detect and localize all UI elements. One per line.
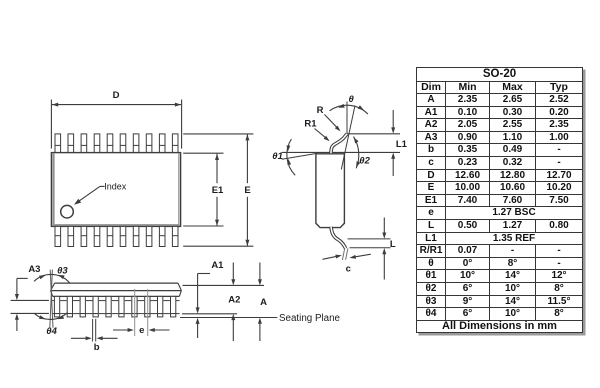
side view: body end chamfers (51, 283, 182, 296)
dimension c witness lines (342, 248, 348, 260)
label θ3 (57, 266, 68, 277)
dimension D extension lines (51, 100, 181, 149)
dimension b (71, 336, 118, 353)
label R and leader (317, 105, 341, 132)
lead detail: lead-tip plane line (346, 133, 400, 135)
dimension table SO-20 (416, 67, 583, 333)
svg-text:L1: L1 (396, 139, 408, 150)
svg-text:E: E (244, 185, 250, 196)
side view: body bottom edge (53, 295, 180, 297)
label θ4 (46, 326, 57, 337)
top view: top pin row (pins 20-11) (55, 134, 178, 153)
lead detail: lower lead (gull-wing) (331, 227, 346, 249)
dimension E extension lines (183, 134, 253, 246)
angle θ4 arc (34, 313, 68, 320)
dimension A2 (228, 263, 240, 342)
lead detail: reference plane line (282, 151, 400, 153)
svg-text:Index: Index (104, 182, 127, 192)
angle θ1 slant line (282, 153, 317, 159)
lead detail: package body (316, 154, 345, 228)
label θ (349, 94, 355, 105)
dimension E1 extension lines (183, 153, 223, 226)
svg-text:A2: A2 (228, 295, 240, 306)
angle θ1 arc (287, 139, 296, 175)
angle θ arc (330, 104, 368, 114)
svg-text:θ1: θ1 (272, 151, 283, 162)
lead detail: upper lead (gull-wing) (331, 134, 347, 153)
index label and leader (74, 182, 127, 205)
dimension E (244, 134, 250, 246)
svg-text:R: R (317, 105, 324, 116)
dimension c arrows (323, 254, 371, 259)
svg-text:E1: E1 (212, 185, 224, 196)
dimension L lines (348, 239, 391, 248)
top view: package body (51, 153, 180, 227)
svg-text:θ3: θ3 (57, 266, 68, 277)
dimension b witness lines (93, 319, 96, 342)
svg-text:θ4: θ4 (46, 326, 57, 337)
angle θ3 arc (34, 274, 70, 282)
svg-text:L: L (390, 239, 396, 250)
dimension A (258, 263, 267, 342)
svg-text:A3: A3 (28, 264, 40, 275)
dimension e center lines (135, 289, 148, 336)
dimension E1 (212, 154, 224, 226)
svg-text:A1: A1 (211, 260, 224, 271)
svg-text:R1: R1 (304, 119, 317, 130)
side view: body top face (55, 282, 178, 284)
side view: end-face draft lines (50, 270, 53, 328)
index mark (pin 1 indicator) (61, 205, 74, 218)
dimension L1 (391, 110, 407, 176)
svg-text:A: A (260, 297, 267, 308)
angle θ vertical reference line (346, 102, 348, 134)
label Seating Plane (279, 313, 341, 324)
svg-text:e: e (139, 325, 144, 336)
svg-text:D: D (113, 90, 120, 101)
angle θ slant line (341, 106, 355, 170)
label θ2 (359, 155, 370, 166)
seating plane line (180, 317, 277, 319)
side view: far-row lead lines in gaps (52, 301, 180, 314)
angle θ2 arc (354, 137, 361, 169)
svg-text:c: c (346, 263, 351, 274)
standoff (body bottom) line (182, 313, 237, 315)
body-top extension line (183, 284, 265, 286)
label θ1 (272, 151, 283, 162)
svg-text:b: b (94, 342, 100, 353)
dimension L (382, 218, 396, 280)
dimension A1 (196, 260, 225, 338)
dimension e (113, 325, 170, 336)
svg-text:Seating Plane: Seating Plane (279, 313, 341, 324)
svg-text:θ2: θ2 (359, 155, 370, 166)
label R1 and leader (304, 119, 329, 142)
side view: lead row (side profile) (54, 296, 175, 317)
dimension A3 (15, 264, 41, 331)
label c (346, 263, 351, 274)
dimension D (52, 90, 181, 107)
dimension A3 reference lines (11, 300, 49, 313)
side view: body parting line (51, 290, 182, 292)
top view: bottom pin row (pins 1-10) (55, 226, 178, 246)
svg-text:θ: θ (349, 94, 355, 105)
